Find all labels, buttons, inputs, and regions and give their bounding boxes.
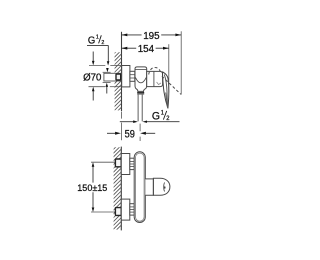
svg-text:154: 154 [138,44,155,55]
svg-text:1: 1 [96,34,99,40]
svg-text:59: 59 [125,129,136,141]
svg-text:G: G [88,35,95,46]
svg-text:Ø70: Ø70 [83,72,102,83]
svg-text:2: 2 [101,40,104,46]
svg-text:195: 195 [143,31,160,42]
svg-text:150±15: 150±15 [77,183,107,193]
svg-text:G: G [152,110,160,122]
svg-text:1: 1 [161,109,165,116]
svg-text:2: 2 [166,115,170,122]
